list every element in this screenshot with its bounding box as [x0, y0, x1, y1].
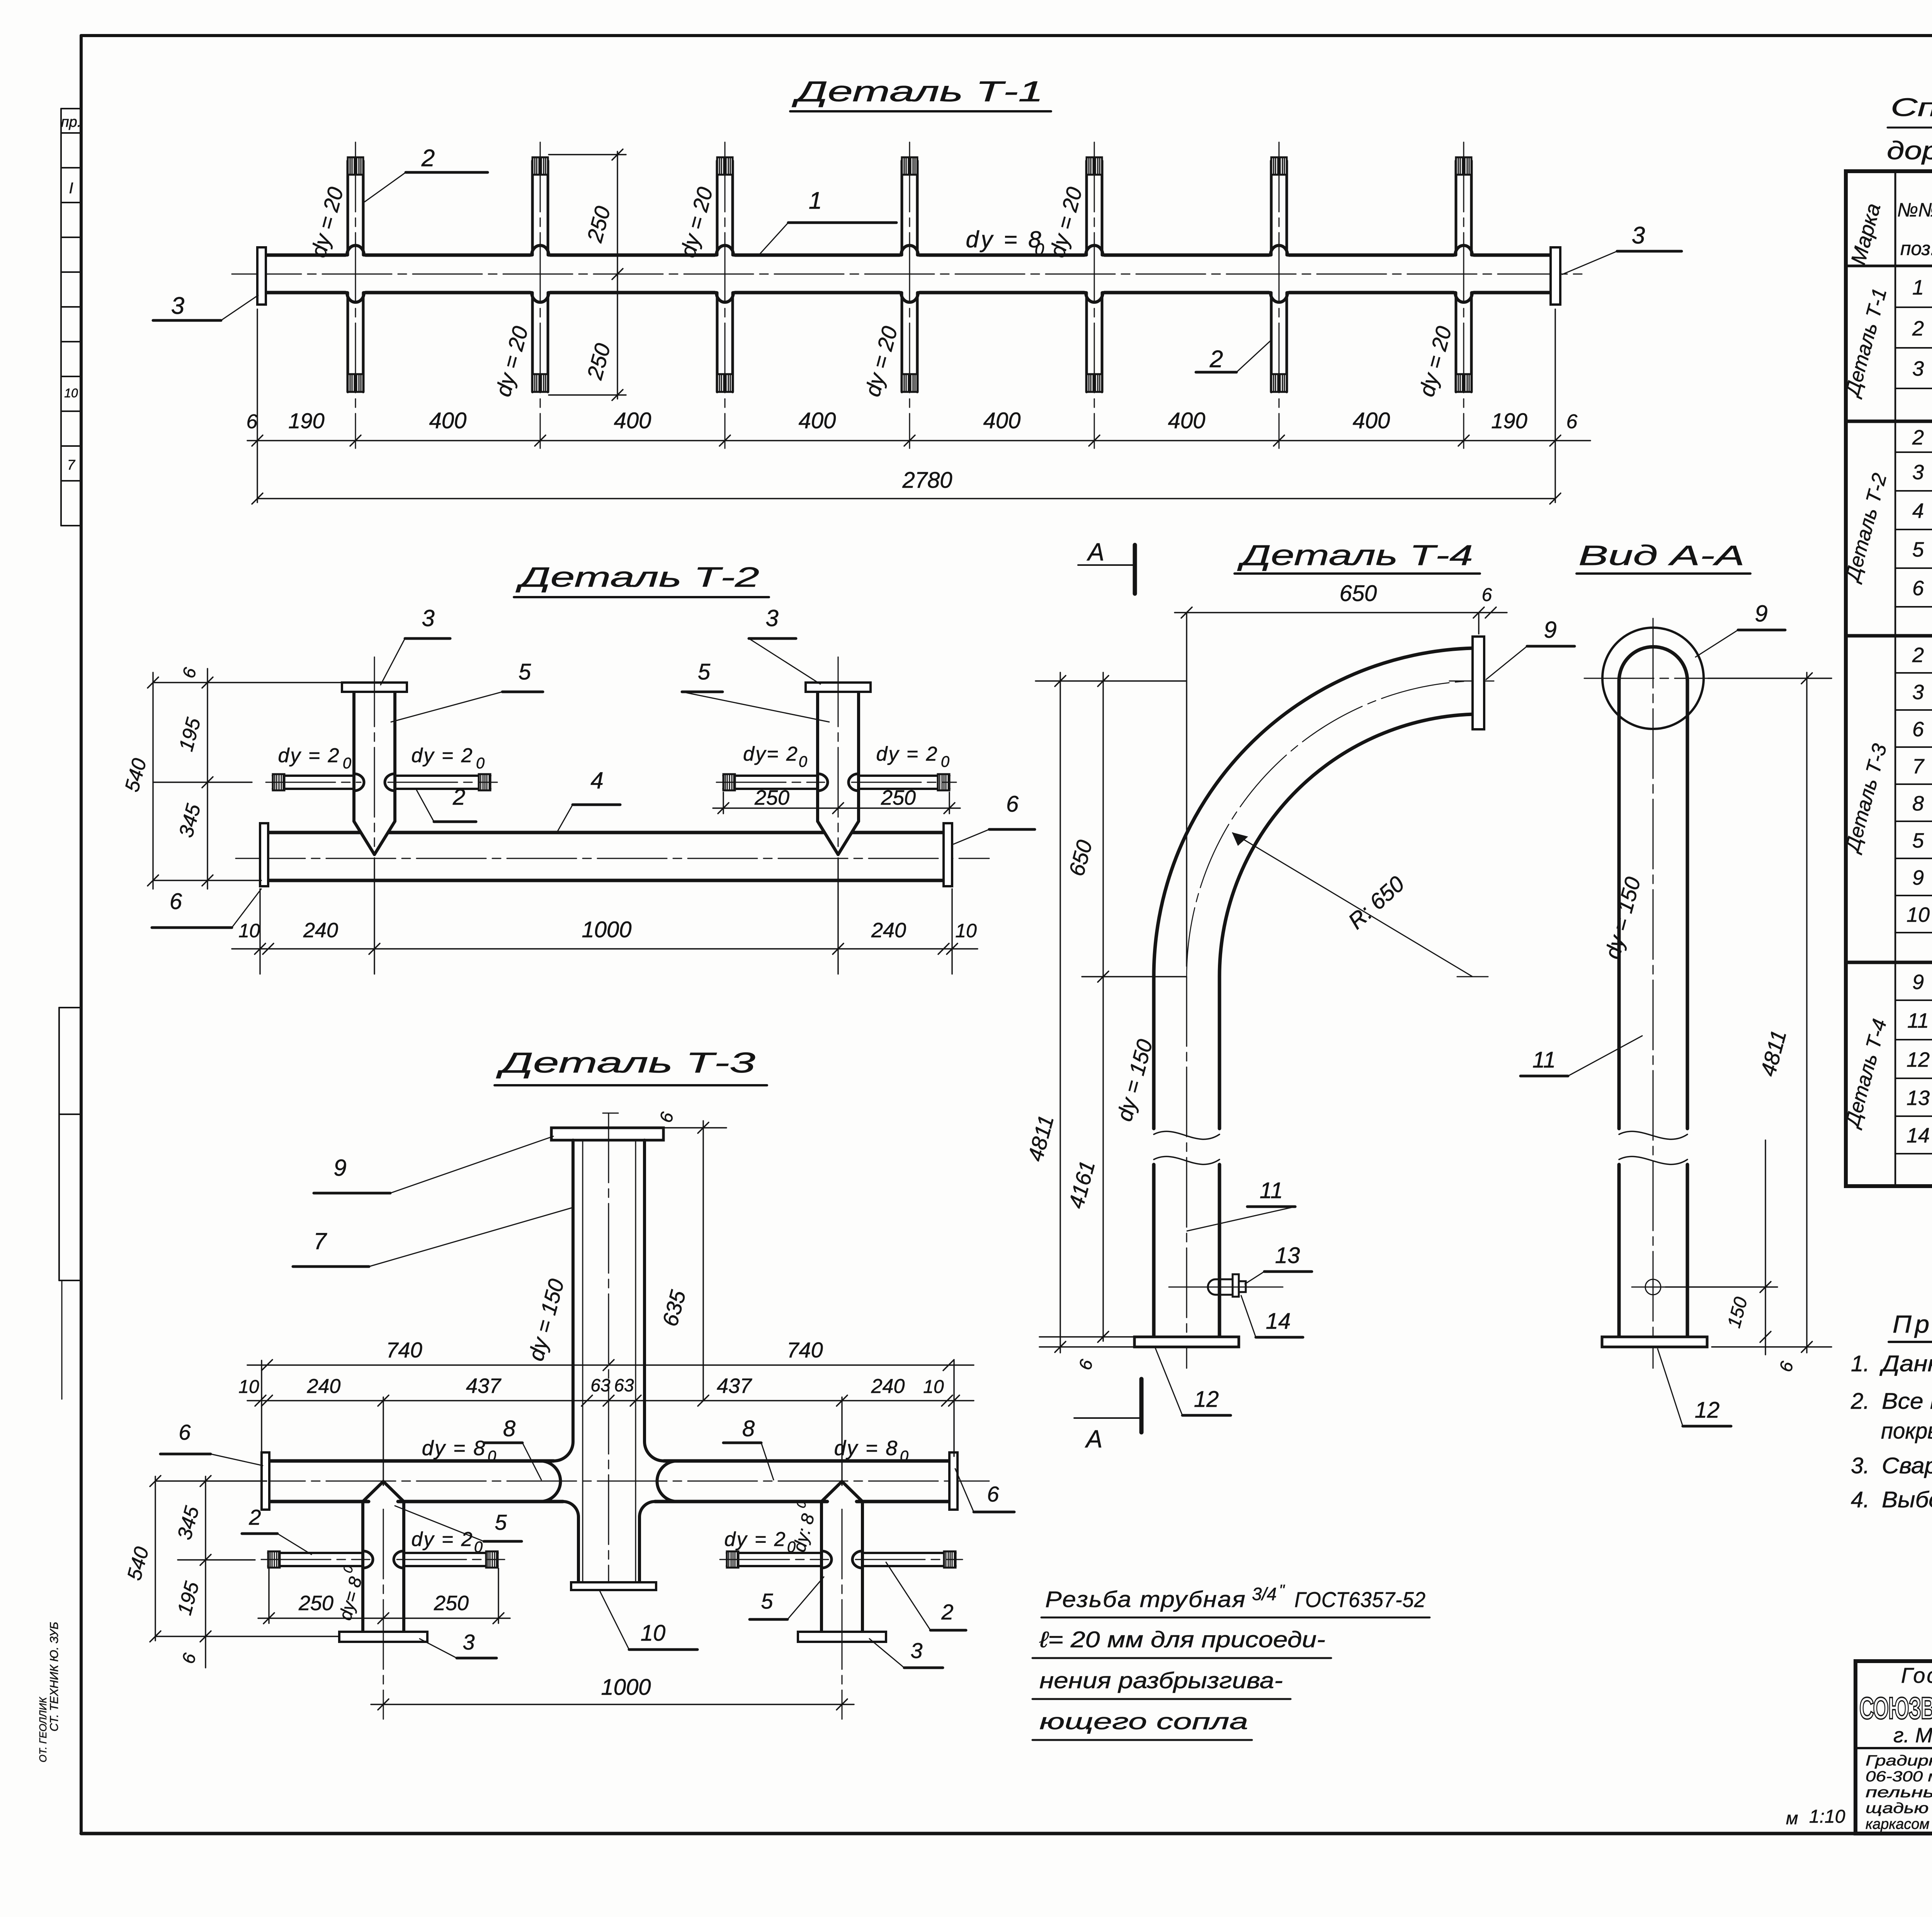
svg-text:06-300 м12.5 пленочные и ка-: 06-300 м12.5 пленочные и ка- [1866, 1769, 1932, 1785]
svg-text:6: 6 [247, 410, 258, 433]
riser pipe 5 tube [816, 692, 819, 821]
svg-text:поз.: поз. [1900, 238, 1932, 259]
svg-text:250: 250 [582, 341, 615, 383]
svg-text:dy = 20: dy = 20 [1414, 323, 1456, 399]
nipple 2 T-3 right riser left [727, 1552, 821, 1554]
left dim stack of T-3 [155, 1476, 156, 1641]
svg-text:10: 10 [923, 1377, 944, 1397]
svg-text:2: 2 [1912, 426, 1924, 449]
dim 740 740 row above T-3 [247, 1364, 974, 1365]
svg-text:9: 9 [333, 1155, 346, 1181]
svg-text:Марка: Марка [1847, 201, 1885, 267]
branch pipe 2 down #5 dy=20 [1085, 293, 1088, 392]
flange 3 left of T-1 [257, 247, 266, 305]
top dim 650-6 of T-4 [1175, 612, 1507, 613]
svg-text:dy = 2: dy = 2 [278, 744, 340, 767]
T-1 dimension chain row 1 [247, 440, 1590, 441]
svg-text:Сварку производить электро: Сварку производить электродами. типа Э-4… [1882, 1453, 1932, 1478]
svg-text:dy: 8: dy: 8 [789, 1512, 818, 1554]
svg-text:5: 5 [761, 1589, 773, 1613]
svg-text:6: 6 [1075, 1357, 1097, 1372]
riser centerline [383, 1509, 384, 1719]
svg-text:437: 437 [466, 1374, 502, 1398]
svg-text:dy = 20: dy = 20 [491, 323, 533, 399]
svg-text:5: 5 [519, 659, 531, 684]
svg-text:635: 635 [658, 1287, 690, 1329]
svg-text:250: 250 [298, 1592, 333, 1615]
svg-text:8: 8 [503, 1416, 515, 1441]
section mark A top [1078, 564, 1134, 566]
dim 250 pair under right riser of T-2 [723, 792, 724, 814]
svg-text:14: 14 [1266, 1309, 1291, 1334]
svg-text:dy = 20: dy = 20 [675, 184, 718, 260]
svg-text:Градирни с вентиляторами: Градирни с вентиляторами [1866, 1753, 1932, 1769]
tube 7 dy=150 walls [571, 1140, 575, 1442]
riser centerline [842, 1509, 843, 1719]
svg-text:6: 6 [170, 889, 182, 914]
svg-text:3: 3 [765, 605, 778, 631]
svg-text:250: 250 [582, 204, 615, 245]
svg-text:пр.: пр. [61, 114, 82, 130]
sheet frame [81, 34, 1932, 37]
svg-text:10: 10 [64, 386, 78, 400]
flange 3 plate bottom [798, 1632, 886, 1642]
nipple 2 T-3 right riser right [862, 1552, 956, 1554]
pipe 8 of T-3 top line [269, 1459, 540, 1463]
svg-text:6: 6 [1566, 410, 1578, 433]
svg-text:3: 3 [1912, 357, 1924, 380]
plug position mark [1645, 1279, 1661, 1295]
svg-text:6: 6 [1482, 585, 1492, 605]
svg-text:4161: 4161 [1064, 1158, 1100, 1211]
bottom dim chain of T-2 [232, 948, 978, 949]
table block Деталь Т-4 [1895, 962, 1896, 1154]
nipple 2 left-right of T-2 [395, 775, 490, 777]
svg-text:10: 10 [238, 920, 260, 941]
svg-text:5: 5 [698, 659, 711, 684]
svg-text:Деталь Т-1: Деталь Т-1 [792, 75, 1043, 107]
branch pipe 2 down #7 dy=20 [1455, 293, 1458, 392]
svg-text:Деталь Т-4: Деталь Т-4 [1840, 1016, 1891, 1130]
table outer border [1846, 171, 1932, 1186]
T-1 dimension row 2 overall 2780 [257, 498, 1555, 499]
stub flare fillets at tee bottom [563, 1502, 578, 1517]
svg-text:10: 10 [955, 920, 977, 941]
branch centerline #1 [355, 142, 356, 448]
branch pipe 2 up #6 dy=20 [1270, 161, 1273, 255]
left dim stack of T-4 [1060, 672, 1061, 1353]
svg-text:dy = 8: dy = 8 [422, 1437, 486, 1460]
svg-text:ГОСТ6357-52: ГОСТ6357-52 [1294, 1587, 1426, 1612]
branch pipe 2 up #4 dy=20 [901, 161, 903, 255]
svg-text:4.: 4. [1851, 1487, 1869, 1512]
table block Деталь Т-3 [1895, 636, 1896, 933]
svg-text:3: 3 [171, 293, 184, 319]
svg-text:5: 5 [1912, 829, 1924, 852]
riser centerline [838, 657, 839, 846]
pipe ends cups at tee [540, 1461, 561, 1502]
table block separators [1846, 420, 1932, 423]
svg-text:7: 7 [67, 457, 76, 473]
svg-text:0: 0 [488, 1448, 496, 1465]
svg-text:2: 2 [1912, 317, 1924, 340]
svg-text:400: 400 [799, 408, 836, 433]
svg-text:Спецификация материалов на: Спецификация материалов на детали во- [1891, 93, 1932, 121]
svg-text:540: 540 [121, 756, 151, 794]
svg-text:dy = 2: dy = 2 [724, 1528, 786, 1551]
svg-text:1:10: 1:10 [1809, 1806, 1845, 1827]
svg-text:6: 6 [655, 1110, 677, 1125]
svg-text:3: 3 [1912, 681, 1924, 704]
svg-text:0: 0 [474, 1539, 483, 1556]
svg-text:195: 195 [175, 715, 205, 754]
nipple 2 T-3 left riser left [268, 1552, 363, 1554]
svg-text:240: 240 [871, 1375, 905, 1398]
flange 12 of T-4 [1134, 1337, 1239, 1347]
flange 3 right of T-1 [1551, 247, 1560, 305]
svg-text:Деталь Т-1: Деталь Т-1 [1840, 286, 1891, 400]
vertical dim 250 at branch 2 top [549, 154, 626, 155]
branch pipe 2 up #7 dy=20 [1455, 161, 1458, 255]
svg-text:3.: 3. [1851, 1453, 1869, 1478]
bend centerline arc [1187, 681, 1473, 977]
svg-text:dy = 20: dy = 20 [1045, 184, 1087, 260]
svg-text:щадью 8 кв.м. со стальным: щадью 8 кв.м. со стальным [1866, 1800, 1932, 1817]
svg-text:Данный лист смотрите совме: Данный лист смотрите совместно с листом … [1879, 1351, 1932, 1376]
dim 635 right of tube 7 [663, 1127, 726, 1128]
svg-text:13: 13 [1275, 1243, 1300, 1268]
flange 9 circle [1602, 628, 1704, 729]
svg-text:ℓ= 20 мм для присоеди-: ℓ= 20 мм для присоеди- [1039, 1627, 1325, 1652]
svg-text:9: 9 [1912, 970, 1924, 994]
svg-text:12: 12 [1906, 1048, 1930, 1071]
svg-text:СТ. ТЕХНИК Ю. ЗУБ: СТ. ТЕХНИК Ю. ЗУБ [48, 1622, 61, 1731]
flange 10 plate bottom of tube [571, 1582, 656, 1590]
svg-text:240: 240 [307, 1375, 341, 1398]
nipple 2 T-3 left riser right [404, 1552, 498, 1554]
pipe 11 front walls [1617, 680, 1621, 1129]
table block Деталь Т-2 [1895, 421, 1896, 607]
svg-text:Деталь Т-3: Деталь Т-3 [1840, 741, 1891, 855]
svg-text:1: 1 [1912, 276, 1924, 299]
centerline pipe 8 [236, 1481, 989, 1482]
pipe 4 dy=80 of T-2 [268, 831, 360, 834]
section mark A bottom [1074, 1417, 1141, 1419]
flange 6 left of T-2 [260, 823, 268, 886]
svg-text:3/4: 3/4 [1252, 1584, 1277, 1604]
svg-text:9: 9 [1544, 617, 1556, 643]
svg-text:dy = 2: dy = 2 [411, 1528, 473, 1551]
svg-text:650: 650 [1340, 581, 1377, 606]
svg-text:пельные с секциями пло -: пельные с секциями пло - [1866, 1784, 1932, 1801]
tube 7 centerline [608, 1113, 609, 1588]
svg-text:8: 8 [742, 1416, 755, 1441]
svg-text:740: 740 [386, 1338, 422, 1362]
svg-text:14: 14 [1906, 1124, 1930, 1147]
svg-text:190: 190 [1491, 409, 1527, 433]
plug 13 and socket 14 on pipe [1216, 1279, 1233, 1280]
bend pipe 11 outer arc [1154, 648, 1473, 977]
svg-text:400: 400 [983, 408, 1021, 433]
svg-text:1: 1 [809, 187, 822, 214]
svg-text:10: 10 [238, 1377, 259, 1397]
flange 9 plate on top of tube 7 [551, 1128, 663, 1140]
svg-text:dy = 2: dy = 2 [411, 744, 473, 767]
svg-text:2: 2 [941, 1600, 953, 1624]
svg-text:dy = 20: dy = 20 [306, 184, 348, 260]
svg-text:4811: 4811 [1755, 1028, 1791, 1079]
pipe 1 dy=80 main header tube [266, 254, 345, 257]
svg-text:СОЮЗВОДОКАНАЛПРОЕКТ: СОЮЗВОДОКАНАЛПРОЕКТ [1859, 1691, 1932, 1725]
svg-text:6: 6 [178, 665, 200, 680]
svg-text:0: 0 [941, 753, 949, 770]
pipe break symbol A-A [1619, 1131, 1687, 1139]
svg-text:нения разбрызгива-: нения разбрызгива- [1039, 1668, 1283, 1693]
svg-text:540: 540 [123, 1544, 153, 1583]
pipe 8 of T-3 bottom line [269, 1500, 369, 1503]
flange 6 right of T-2 [944, 823, 952, 886]
svg-text:437: 437 [717, 1374, 752, 1398]
riser pipe 5 down tube [361, 1502, 364, 1632]
svg-text:2: 2 [1209, 346, 1223, 373]
svg-text:9: 9 [1755, 601, 1767, 627]
svg-text:250: 250 [881, 786, 916, 809]
svg-text:195: 195 [173, 1579, 204, 1617]
svg-text:11: 11 [1260, 1178, 1283, 1203]
svg-text:10: 10 [1906, 903, 1930, 926]
svg-text:345: 345 [173, 1503, 204, 1542]
svg-text:dy = 150: dy = 150 [524, 1276, 569, 1363]
pipe cap arc in circle [1619, 647, 1687, 681]
branch pipe 2 down #6 dy=20 [1270, 293, 1273, 392]
svg-text:А: А [1086, 538, 1104, 566]
nipple 2 right-left of T-2 [723, 775, 818, 777]
svg-text:7: 7 [1912, 755, 1925, 778]
centerline of pipe 1 [232, 274, 1584, 275]
flange 6 right of T-3 [949, 1452, 957, 1510]
branch centerline #3 [724, 142, 726, 448]
svg-text:0: 0 [476, 755, 485, 772]
vertical dim 250 at branch 2 bottom [549, 394, 626, 395]
branch pipe 2 down #1 dy=20 [347, 293, 349, 392]
svg-text:13: 13 [1906, 1086, 1930, 1110]
flange 3 plate bottom [339, 1632, 427, 1642]
title block outer [1855, 1661, 1932, 1834]
table header [1846, 265, 1932, 267]
svg-text:Госстрой СССР: Госстрой СССР [1901, 1663, 1932, 1687]
branch centerline #2 [540, 142, 541, 448]
svg-text:240: 240 [871, 919, 906, 942]
branch pipe 2 up #5 dy=20 [1085, 161, 1088, 255]
svg-text:4: 4 [590, 768, 603, 793]
vertical pipe 11 walls upper [1152, 977, 1156, 1129]
svg-text:2.: 2. [1850, 1389, 1869, 1414]
svg-text:м: м [1786, 1808, 1798, 1828]
svg-text:240: 240 [303, 919, 338, 942]
svg-text:400: 400 [1353, 408, 1390, 433]
nipple 2 left-left of T-2 [273, 775, 354, 777]
svg-text:Деталь Т-2: Деталь Т-2 [1840, 471, 1891, 585]
svg-text:Примечания:: Примечания: [1893, 1310, 1932, 1338]
dim 150 at plug A-A [1765, 1140, 1766, 1355]
svg-text:9: 9 [1912, 866, 1924, 889]
svg-text:400: 400 [429, 408, 467, 433]
svg-text:Все трубы водораспределител: Все трубы водораспределительной системы … [1882, 1389, 1932, 1414]
svg-text:2: 2 [421, 145, 435, 172]
branch centerline #7 [1463, 142, 1464, 448]
branch centerline #4 [909, 142, 910, 448]
svg-text:2: 2 [248, 1505, 261, 1529]
branch pipe 2 down #3 dy=20 [716, 293, 719, 392]
left dim stack of T-2 [152, 672, 153, 889]
svg-text:250: 250 [434, 1592, 469, 1615]
centerline of pipe 4 [236, 858, 989, 859]
svg-text:150: 150 [1724, 1295, 1752, 1330]
svg-text:2: 2 [1912, 644, 1924, 667]
svg-text:№№: №№ [1897, 199, 1932, 221]
svg-text:740: 740 [787, 1338, 823, 1362]
svg-text:0: 0 [1035, 240, 1044, 259]
svg-text:63: 63 [614, 1375, 634, 1395]
svg-text:dy= 8: dy= 8 [335, 1575, 366, 1622]
svg-text:Выборку деталей смотрите ли: Выборку деталей смотрите лист В-4 альбом… [1882, 1487, 1932, 1512]
svg-text:3: 3 [463, 1630, 474, 1654]
riser pipe 5 tube [352, 692, 355, 821]
svg-text:5: 5 [495, 1510, 507, 1534]
svg-text:10: 10 [641, 1621, 666, 1646]
svg-text:Резьба трубная: Резьба трубная [1045, 1587, 1246, 1612]
svg-text:6: 6 [179, 1420, 191, 1444]
flange 9 of T-4 [1473, 637, 1484, 729]
branch pipe 2 up #2 dy=20 [531, 161, 534, 255]
flange 3 plate on riser [342, 683, 407, 692]
svg-text:63: 63 [590, 1375, 611, 1395]
svg-text:Деталь Т-3: Деталь Т-3 [496, 1047, 755, 1079]
bend pipe 11 inner arc [1219, 714, 1473, 977]
riser centerline [374, 657, 375, 846]
svg-text:6: 6 [1912, 577, 1924, 600]
svg-text:250: 250 [754, 786, 789, 809]
svg-text:6: 6 [1912, 718, 1924, 741]
branch pipe 2 down #4 dy=20 [901, 293, 903, 392]
svg-text:dy = 8: dy = 8 [966, 226, 1043, 252]
left margin stamp cells [61, 108, 81, 109]
svg-text:А: А [1085, 1425, 1103, 1453]
svg-text:dy = 150: dy = 150 [1112, 1037, 1157, 1124]
svg-text:4811: 4811 [1023, 1113, 1058, 1164]
svg-text:dy = 8: dy = 8 [834, 1437, 899, 1460]
svg-text:I: I [69, 180, 73, 197]
dim chain row above T-3 pipe [247, 1400, 974, 1401]
pipe walls lower A-A [1617, 1165, 1621, 1337]
svg-text:190: 190 [288, 409, 324, 433]
branch pipe 2 up #1 dy=20 [347, 161, 349, 255]
riser pipe 5 down tube [820, 1502, 823, 1632]
svg-text:345: 345 [175, 801, 205, 840]
svg-text:dy = 2: dy = 2 [876, 743, 938, 765]
svg-text:7: 7 [313, 1228, 327, 1254]
svg-text:11: 11 [1532, 1047, 1556, 1073]
svg-text:3: 3 [422, 605, 434, 631]
svg-text:6: 6 [987, 1482, 999, 1506]
svg-text:6: 6 [1006, 792, 1019, 817]
svg-text:3: 3 [910, 1638, 922, 1663]
nipple 2 right-right of T-2 [859, 775, 949, 777]
branch centerline #5 [1094, 142, 1095, 448]
flange 3 plate on riser [806, 683, 871, 692]
svg-text:ющего сопла: ющего сопла [1039, 1709, 1248, 1734]
dim 4811 right of A-A [1806, 672, 1807, 1353]
svg-text:дораспределительной системы: дораспределительной системы градирни [1887, 136, 1932, 165]
dim 250 250 under left riser T-3 [268, 1568, 269, 1623]
svg-text:Вид А-А: Вид А-А [1578, 540, 1745, 571]
svg-text:dy = 150: dy = 150 [1600, 874, 1645, 961]
svg-text:1000: 1000 [582, 917, 631, 942]
svg-text:400: 400 [1168, 408, 1206, 433]
svg-text:650: 650 [1064, 838, 1097, 879]
svg-text:покрыты антикоррозионным пок: покрыты антикоррозионным покрытием (Альб… [1881, 1418, 1932, 1444]
branch centerline #6 [1279, 142, 1280, 448]
svg-text:1000: 1000 [601, 1675, 651, 1700]
svg-text:г. Москва: г. Москва [1893, 1724, 1932, 1747]
pipe break symbol T-4 [1154, 1131, 1219, 1139]
vertical pipe 11 walls lower [1152, 1165, 1156, 1337]
svg-text:12: 12 [1194, 1387, 1219, 1412]
svg-text:": " [1279, 1582, 1285, 1599]
bottom dim 1000 of T-3 [371, 1704, 854, 1705]
tube flare fillets at tee top [554, 1442, 573, 1461]
svg-text:6: 6 [1775, 1359, 1797, 1374]
flange 12 of A-A [1602, 1337, 1707, 1347]
centerlines of view A-A [1653, 618, 1654, 1368]
svg-text:3: 3 [1912, 461, 1924, 484]
svg-text:R: 650: R: 650 [1344, 871, 1409, 934]
svg-text:0: 0 [900, 1448, 908, 1465]
svg-text:3: 3 [1632, 222, 1645, 249]
svg-text:Деталь Т-2: Деталь Т-2 [515, 562, 759, 593]
svg-text:12: 12 [1695, 1398, 1720, 1423]
svg-text:11: 11 [1907, 1009, 1929, 1032]
svg-text:1.: 1. [1851, 1351, 1869, 1376]
branch pipe 2 down #2 dy=20 [531, 293, 534, 392]
extension lines above T-3 [261, 1360, 262, 1456]
svg-text:ОТ. ГЕОЛЛИК: ОТ. ГЕОЛЛИК [37, 1697, 49, 1762]
svg-text:8: 8 [1912, 792, 1924, 815]
svg-text:каркасом: каркасом [1866, 1816, 1929, 1832]
table block Деталь Т-1 [1895, 266, 1896, 388]
branch pipe 2 up #3 dy=20 [716, 161, 719, 255]
svg-text:5: 5 [1912, 538, 1924, 561]
flange 6 left of T-3 [262, 1452, 269, 1510]
stub to flange 9 [1449, 681, 1494, 682]
svg-text:Деталь Т-4: Деталь Т-4 [1237, 539, 1473, 571]
pipe centerline vertical T-4 [1186, 977, 1187, 1368]
svg-text:0: 0 [343, 755, 351, 772]
lower tube stub below tee [577, 1517, 580, 1582]
left margin lower cells [58, 1008, 60, 1280]
svg-text:2780: 2780 [902, 468, 952, 493]
svg-text:dy = 20: dy = 20 [860, 323, 902, 399]
svg-text:0: 0 [799, 753, 807, 770]
svg-text:4: 4 [1912, 499, 1924, 523]
svg-text:dy= 2: dy= 2 [743, 743, 799, 765]
svg-text:6: 6 [178, 1651, 200, 1666]
R=650 radius line [1233, 833, 1473, 977]
svg-text:400: 400 [614, 408, 651, 433]
svg-text:2: 2 [452, 785, 465, 810]
